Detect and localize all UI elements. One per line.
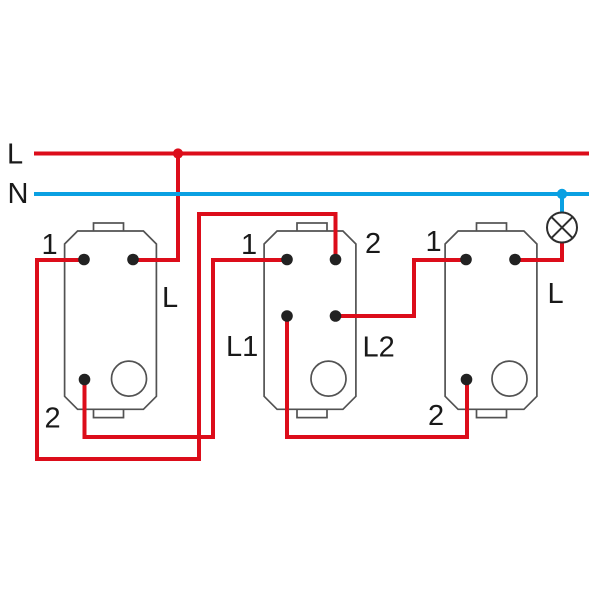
svg-text:2: 2 [428, 400, 444, 432]
svg-text:1: 1 [241, 229, 257, 261]
svg-text:L2: L2 [363, 332, 395, 364]
svg-text:2: 2 [45, 403, 61, 435]
svg-text:L1: L1 [226, 331, 258, 363]
svg-text:1: 1 [426, 226, 442, 258]
svg-text:1: 1 [42, 229, 58, 261]
svg-text:L: L [548, 278, 564, 310]
svg-text:L: L [7, 139, 23, 171]
svg-text:L: L [162, 282, 178, 314]
svg-text:2: 2 [365, 228, 381, 260]
svg-text:N: N [8, 178, 29, 210]
